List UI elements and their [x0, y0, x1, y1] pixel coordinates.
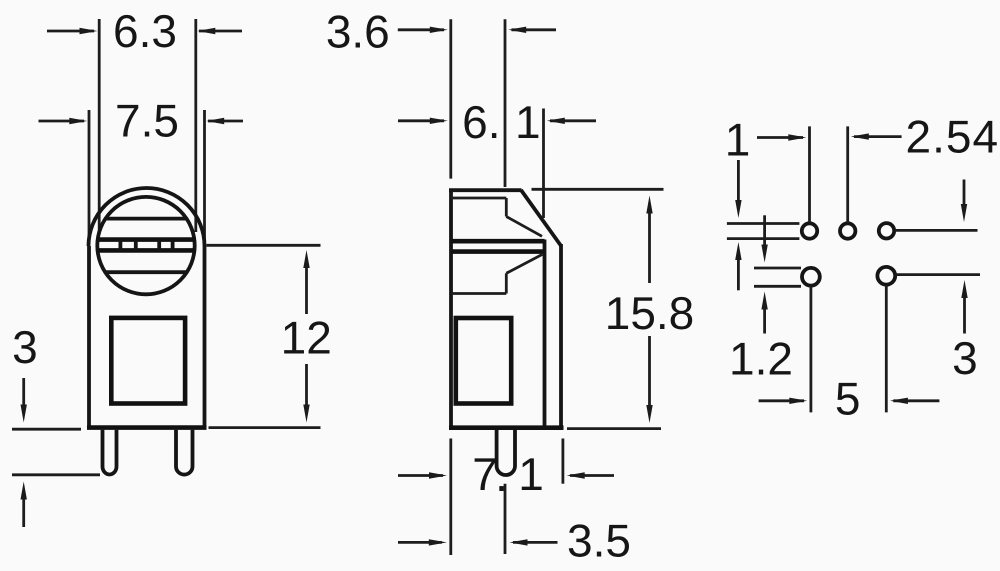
body left edge — [87, 246, 91, 430]
row2 c2 down line — [885, 285, 888, 413]
dim 15.8 upper line and up arrow — [648, 211, 651, 283]
dim 3.5 left arrow — [398, 541, 442, 544]
dim 6.3 right extension line — [194, 19, 197, 232]
dia1 down arrow — [737, 160, 740, 203]
dim 3.5 right arrow — [513, 541, 558, 544]
row2 right extension line — [895, 273, 980, 276]
holder ring arc — [89, 188, 205, 246]
dim 5 left arrow — [759, 399, 804, 402]
upper latch horizontal — [451, 197, 506, 200]
hole row2 c1 — [802, 268, 820, 286]
row1 c2 vertical line — [846, 126, 849, 222]
dim 15.8 lower line and down arrow — [648, 336, 651, 407]
svg-text:1.2: 1.2 — [729, 333, 793, 385]
dim 6.3 left arrow — [47, 30, 94, 33]
row2 c1 down line — [810, 286, 813, 413]
dim 3 up arrow — [963, 296, 966, 334]
dim 3 down arrow — [22, 378, 25, 406]
dim 7.5 right arrow — [208, 120, 243, 123]
svg-text:7.5: 7.5 — [115, 95, 179, 147]
LED band bottom line — [98, 248, 196, 253]
svg-text:12: 12 — [281, 312, 332, 364]
dim 15.8 bottom extension line — [567, 427, 661, 430]
dim 6.1 right arrow — [550, 119, 596, 122]
dim 7.5 left arrow — [39, 120, 85, 123]
LED lens circle — [97, 197, 194, 294]
body left edge — [449, 189, 453, 430]
dim 12 lower line and down arrow — [305, 364, 308, 408]
svg-text:6.: 6. — [462, 96, 500, 148]
svg-text:3.6: 3.6 — [326, 5, 390, 57]
hole row1 c1 — [802, 223, 817, 238]
LED band tick 1 — [119, 240, 123, 251]
dim 2.54 left arrow — [757, 136, 803, 139]
svg-text:5: 5 — [835, 373, 861, 425]
lower latch vertical — [505, 273, 508, 293]
dim 12 upper line and up arrow — [305, 264, 308, 314]
svg-text:7: 7 — [472, 448, 498, 500]
LED band tick 4 — [171, 240, 175, 251]
dim 3.6 right arrow — [512, 28, 557, 31]
dim 2.54 right arrow — [854, 135, 902, 138]
side pin — [497, 430, 515, 475]
upper latch vertical — [505, 198, 508, 217]
row1 tangent bottom line — [727, 237, 800, 240]
LED band tick 2 — [134, 240, 138, 251]
dia1.2 up arrow — [763, 307, 766, 334]
extension line body left — [449, 19, 452, 178]
flange line lower — [451, 249, 545, 254]
lower latch diagonal — [506, 254, 542, 273]
svg-text:15.8: 15.8 — [605, 287, 695, 339]
dia1.2 down arrow — [763, 215, 766, 247]
dim 3 top extension line — [12, 428, 81, 431]
hole row1 c3 — [879, 223, 894, 238]
svg-text:3: 3 — [12, 321, 38, 373]
pin center extension line bottom — [504, 484, 507, 554]
window rectangle — [111, 318, 185, 404]
body right edge — [559, 244, 563, 428]
LED band tick 3 — [157, 240, 161, 251]
dim 3 down arrow — [963, 180, 966, 208]
svg-text:2.54: 2.54 — [906, 111, 1000, 163]
dim 7.5 right extension line — [203, 110, 206, 244]
row1 right extension line — [894, 229, 977, 232]
lower latch horizontal — [451, 292, 506, 295]
left pin — [103, 430, 117, 475]
svg-text:3: 3 — [952, 332, 978, 384]
right pin — [176, 430, 193, 475]
dim 7.1 right extension line — [562, 439, 565, 484]
chamfer — [521, 190, 561, 246]
body top edge — [449, 188, 522, 192]
inner vertical edge — [543, 240, 547, 428]
row2 tangent bottom line — [754, 285, 801, 288]
row2 tangent top line — [754, 267, 801, 270]
extension line body right top — [542, 109, 545, 219]
dim 12 bottom extension line — [209, 426, 321, 429]
svg-text:3.5: 3.5 — [567, 515, 631, 567]
side window rectangle — [456, 318, 511, 404]
hole row1 c2 — [840, 223, 855, 238]
LED top chord — [106, 217, 186, 221]
body bottom edge — [87, 425, 207, 430]
hole row2 c2 — [877, 267, 895, 285]
row1 c1 vertical line — [808, 126, 811, 222]
dim 12 top extension line — [207, 244, 321, 247]
dim 3.6 left arrow — [398, 28, 444, 31]
LED lower chord — [106, 270, 187, 274]
dim 7.1 left arrow — [398, 474, 443, 477]
body right edge — [203, 246, 207, 430]
svg-text:1: 1 — [518, 448, 544, 500]
dim 15.8 top extension line — [532, 188, 664, 191]
row1 tangent top line — [727, 222, 800, 225]
svg-text:6.3: 6.3 — [113, 5, 177, 57]
dia1 up arrow — [737, 258, 740, 290]
dim 6.1 left arrow — [398, 119, 444, 122]
dim 7.1 left extension line — [449, 439, 452, 556]
dim 5 right arrow — [893, 399, 939, 402]
flange line upper — [451, 239, 545, 244]
svg-text:1: 1 — [725, 114, 751, 166]
extension line pin center top — [504, 19, 507, 187]
dim 3 bottom extension line — [12, 473, 100, 476]
svg-text:1: 1 — [515, 96, 541, 148]
dim 6.3 right arrow — [199, 30, 242, 33]
body bottom edge — [449, 425, 564, 430]
dim 7.5 left extension line — [88, 110, 91, 244]
LED band top line — [98, 237, 196, 242]
dim 6.3 left extension line — [98, 19, 101, 232]
dim 7.1 right arrow — [570, 474, 614, 477]
dim 3 up arrow — [22, 497, 25, 527]
upper latch diagonal — [506, 217, 542, 237]
